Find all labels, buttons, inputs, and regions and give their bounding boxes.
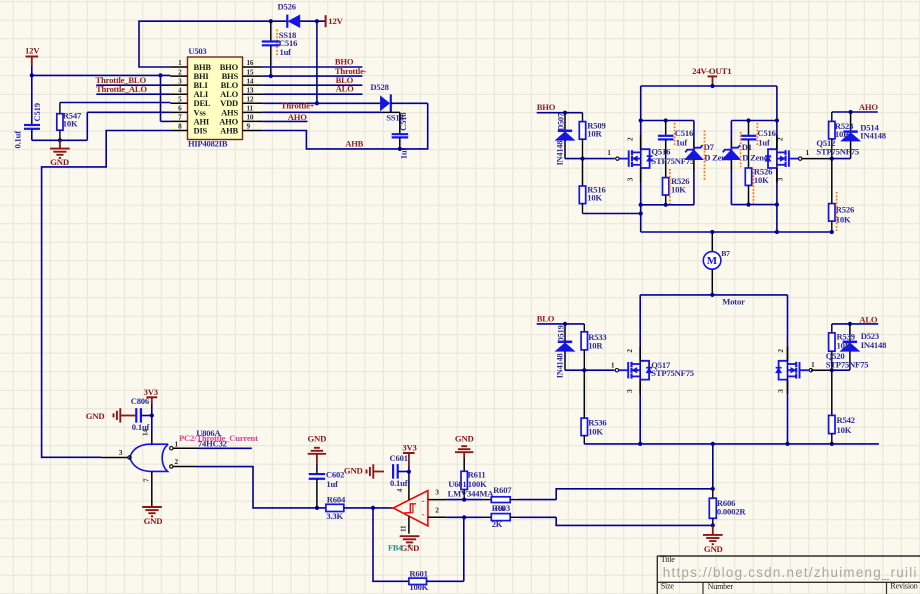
svg-text:FB4: FB4 — [388, 544, 402, 553]
svg-text:BHO: BHO — [537, 102, 556, 112]
svg-text:1: 1 — [607, 148, 611, 157]
svg-text:11: 11 — [400, 525, 408, 532]
svg-text:12: 12 — [247, 95, 254, 103]
svg-text:100K: 100K — [468, 479, 487, 489]
svg-text:3: 3 — [776, 177, 784, 181]
svg-text:3V3: 3V3 — [402, 443, 416, 453]
svg-text:R601: R601 — [409, 568, 427, 578]
svg-text:3: 3 — [627, 177, 635, 181]
svg-text:3: 3 — [626, 389, 634, 393]
svg-text:6: 6 — [178, 105, 182, 113]
svg-text:2: 2 — [626, 349, 634, 353]
svg-text:1uf: 1uf — [676, 138, 688, 148]
svg-text:74HC32: 74HC32 — [198, 438, 227, 448]
svg-text:1: 1 — [175, 439, 179, 448]
svg-text:Title: Title — [661, 555, 676, 564]
svg-text:3: 3 — [777, 389, 785, 393]
svg-text:IN4148: IN4148 — [860, 130, 886, 140]
svg-text:1: 1 — [611, 360, 615, 369]
svg-text:10K: 10K — [587, 192, 602, 202]
svg-text:1: 1 — [806, 148, 810, 157]
svg-text:LMV344MA: LMV344MA — [448, 489, 495, 499]
svg-text:10K: 10K — [836, 215, 851, 225]
svg-text:https://blog.csdn.net/zhuimeng: https://blog.csdn.net/zhuimeng_ruili — [663, 565, 918, 580]
svg-text:-: - — [422, 496, 425, 505]
svg-text:STP75NF75: STP75NF75 — [651, 368, 694, 378]
svg-text:R526: R526 — [836, 204, 855, 214]
svg-text:D519: D519 — [557, 325, 566, 343]
svg-text:IN4148: IN4148 — [555, 141, 564, 166]
svg-text:9: 9 — [247, 123, 251, 131]
svg-text:1uf: 1uf — [280, 47, 292, 57]
svg-text:24V-OUT1: 24V-OUT1 — [692, 66, 731, 76]
svg-text:10R: 10R — [835, 129, 850, 139]
svg-text:5: 5 — [178, 95, 182, 103]
svg-text:D1: D1 — [742, 142, 752, 152]
svg-text:AHB: AHB — [220, 125, 238, 135]
svg-text:1uf: 1uf — [758, 138, 770, 148]
svg-text:3: 3 — [435, 488, 439, 497]
svg-text:14: 14 — [247, 77, 254, 85]
svg-text:13: 13 — [247, 86, 254, 94]
svg-text:8: 8 — [178, 123, 182, 131]
svg-text:HIP4082IB: HIP4082IB — [188, 138, 228, 148]
svg-text:0.1uf: 0.1uf — [132, 422, 150, 432]
svg-text:R6: R6 — [495, 503, 506, 513]
svg-text:15: 15 — [247, 68, 254, 76]
svg-text:Size: Size — [661, 582, 675, 591]
svg-text:GND: GND — [455, 433, 474, 443]
svg-text:1: 1 — [178, 59, 182, 67]
svg-text:2K: 2K — [492, 519, 503, 529]
svg-text:GND: GND — [308, 434, 327, 444]
svg-text:1uf: 1uf — [326, 479, 338, 489]
svg-text:3: 3 — [119, 448, 123, 457]
svg-text:10K: 10K — [671, 185, 686, 195]
svg-text:10K: 10K — [63, 119, 78, 129]
svg-text:12V: 12V — [25, 46, 40, 56]
svg-text:STP75NF75: STP75NF75 — [816, 146, 859, 156]
svg-text:10R: 10R — [587, 128, 602, 138]
svg-text:10R: 10R — [837, 340, 852, 350]
svg-text:STP75NF75: STP75NF75 — [651, 156, 694, 166]
svg-text:11: 11 — [247, 105, 254, 113]
svg-text:GND: GND — [50, 157, 69, 167]
svg-text:C518: C518 — [398, 112, 408, 131]
svg-text:10: 10 — [247, 114, 254, 122]
svg-text:BLO: BLO — [537, 314, 555, 324]
svg-text:Throttle+: Throttle+ — [281, 101, 315, 111]
svg-text:4: 4 — [178, 86, 182, 94]
svg-text:2: 2 — [627, 137, 635, 141]
svg-text:7: 7 — [178, 114, 182, 122]
svg-text:-: - — [422, 510, 425, 519]
svg-text:D7: D7 — [704, 142, 715, 152]
svg-text:C806: C806 — [131, 396, 150, 406]
svg-text:AHB: AHB — [345, 138, 363, 148]
svg-text:Motor: Motor — [722, 296, 745, 306]
svg-text:10K: 10K — [588, 426, 603, 436]
svg-text:B7: B7 — [721, 249, 730, 258]
svg-text:10R: 10R — [588, 341, 603, 351]
svg-text:AHO: AHO — [288, 112, 307, 122]
svg-text:GND: GND — [144, 516, 163, 526]
svg-text:M: M — [707, 255, 718, 267]
svg-text:Revision: Revision — [890, 582, 917, 591]
svg-text:R604: R604 — [327, 494, 346, 504]
svg-text:IN4148: IN4148 — [555, 354, 564, 379]
svg-text:2: 2 — [435, 506, 439, 515]
svg-text:10K: 10K — [754, 175, 769, 185]
svg-text:Number: Number — [708, 582, 734, 591]
svg-text:2: 2 — [178, 68, 182, 76]
svg-text:2: 2 — [776, 137, 784, 141]
svg-text:ALO: ALO — [859, 314, 878, 324]
svg-text:0.1uf: 0.1uf — [390, 478, 408, 488]
svg-text:3: 3 — [178, 77, 182, 85]
svg-text:U503: U503 — [188, 46, 206, 56]
svg-text:R607: R607 — [493, 485, 512, 495]
svg-text:STP75NF75: STP75NF75 — [826, 360, 869, 370]
svg-text:1: 1 — [811, 360, 815, 369]
svg-text:0.1uf: 0.1uf — [13, 131, 23, 149]
svg-text:C601: C601 — [390, 453, 408, 463]
svg-text:12V: 12V — [328, 16, 343, 26]
svg-text:AHO: AHO — [859, 102, 878, 112]
svg-text:R542: R542 — [837, 415, 855, 425]
svg-text:Throttle_ALO: Throttle_ALO — [96, 84, 147, 94]
svg-text:U601: U601 — [448, 479, 466, 489]
svg-text:ALO: ALO — [336, 84, 355, 94]
svg-text:IN4148: IN4148 — [861, 340, 887, 350]
svg-text:D528: D528 — [370, 82, 389, 92]
svg-text:D526: D526 — [278, 1, 297, 11]
svg-text:GND: GND — [401, 543, 420, 553]
svg-text:GND: GND — [704, 544, 723, 554]
svg-text:2: 2 — [175, 457, 179, 466]
svg-text:U806A: U806A — [196, 428, 221, 438]
svg-text:C519: C519 — [32, 103, 42, 121]
svg-text:16: 16 — [247, 59, 254, 67]
svg-text:2: 2 — [777, 349, 785, 353]
svg-text:DIS: DIS — [194, 125, 208, 135]
svg-text:GND: GND — [344, 466, 363, 476]
svg-text:GND: GND — [86, 411, 105, 421]
svg-text:10K: 10K — [837, 425, 852, 435]
svg-text:0.0002R: 0.0002R — [717, 507, 746, 517]
svg-text:D507: D507 — [557, 113, 566, 131]
svg-text:3.3K: 3.3K — [326, 511, 343, 521]
svg-text:7: 7 — [143, 478, 151, 482]
svg-text:100K: 100K — [409, 582, 428, 592]
svg-text:4: 4 — [396, 488, 404, 492]
